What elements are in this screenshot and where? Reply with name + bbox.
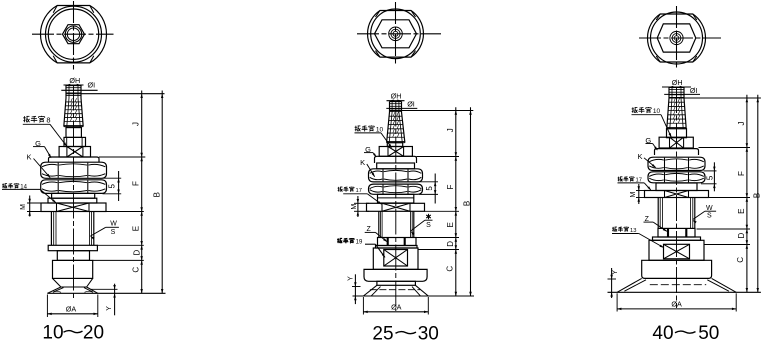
fig2 flange xyxy=(364,269,427,281)
fig3 coupling ring xyxy=(658,228,695,237)
fig3 thin washer xyxy=(653,237,701,240)
svg-text:J: J xyxy=(446,128,455,132)
fig2 label *S xyxy=(428,214,430,219)
svg-text:F: F xyxy=(737,171,746,176)
svg-text:5: 5 xyxy=(425,186,434,191)
svg-text:W: W xyxy=(110,220,117,227)
fig1 top view: thread circles xyxy=(65,26,81,42)
svg-text:C: C xyxy=(445,266,454,272)
fig3 top plate G xyxy=(655,149,699,155)
svg-text:ØI: ØI xyxy=(88,81,96,90)
fig1 dim line B xyxy=(161,91,163,294)
svg-text:C: C xyxy=(736,257,745,263)
svg-text:5: 5 xyxy=(705,175,714,180)
fig2 centerline xyxy=(395,101,397,312)
svg-text:B: B xyxy=(462,201,471,206)
svg-text:ØA: ØA xyxy=(671,300,682,309)
svg-text:M: M xyxy=(351,204,358,210)
svg-text:D: D xyxy=(132,249,141,255)
svg-text:ØA: ØA xyxy=(66,304,77,313)
fig3 dim ØH xyxy=(662,86,691,88)
fig3 taper thread xyxy=(667,98,669,129)
fig3 right extension lines xyxy=(699,147,751,149)
svg-text:ØH: ØH xyxy=(672,78,683,87)
svg-text:D: D xyxy=(737,232,746,238)
svg-text:19: 19 xyxy=(356,239,363,245)
fig3 label wrench-width-17 xyxy=(618,177,620,182)
fig1 dim Y xyxy=(91,288,118,290)
fig2 dim ØH xyxy=(387,100,405,102)
fig1 washer M with X xyxy=(41,203,106,212)
fig1 label wrench-width-8 xyxy=(23,116,25,122)
fig1 leader ØI xyxy=(61,89,97,91)
fig1 hex nut lower xyxy=(41,180,107,194)
svg-text:C: C xyxy=(132,267,141,273)
fig1 suction cup flare xyxy=(47,287,61,293)
svg-text:13: 13 xyxy=(630,228,636,234)
fig3 top view: thread circles xyxy=(670,31,683,44)
fig2 lower block with X xyxy=(373,248,418,269)
fig2 suction cup xyxy=(363,285,377,296)
fig3 label wrench-width-10 xyxy=(632,107,634,113)
fig1 cup bottom line xyxy=(47,292,165,294)
fig2 coupling ring xyxy=(378,238,417,246)
fig2 wrench square with X xyxy=(379,147,412,157)
fig1 label wrench-width-14 xyxy=(2,183,4,188)
fig1 dim M xyxy=(27,202,44,204)
fig2 dim M xyxy=(354,202,369,204)
fig3 top reference line xyxy=(669,97,761,99)
fig2 cup neck xyxy=(377,281,416,285)
fig1 top plate G xyxy=(49,157,100,162)
fig1 right extension lines xyxy=(99,156,145,158)
fig1 top view: corner chamfer lines xyxy=(53,6,57,13)
svg-text:30: 30 xyxy=(418,324,439,344)
svg-text:ØH: ØH xyxy=(391,92,402,101)
svg-text:10: 10 xyxy=(653,108,661,115)
fig3 dim ØA xyxy=(616,293,618,311)
svg-text:K: K xyxy=(26,153,31,162)
fig1 top reference line xyxy=(66,93,165,95)
fig2 washer M with X xyxy=(367,203,425,211)
fig2 dim ØA xyxy=(362,297,364,315)
fig1 dim ØH xyxy=(64,84,84,86)
fig3 top view: centerlines xyxy=(676,6,678,69)
fig1 taper thread xyxy=(64,98,66,127)
fig3 dim Y xyxy=(608,278,617,280)
svg-text:J: J xyxy=(132,122,141,126)
fig3 dim 5 (lower nut) xyxy=(704,170,717,172)
fig2 threaded stud xyxy=(389,102,391,113)
fig2 top view: corner chamfers xyxy=(375,11,380,18)
svg-text:ØH: ØH xyxy=(69,76,80,85)
fig2 thin washer xyxy=(376,246,418,249)
fig2 boss below nuts xyxy=(378,194,414,203)
svg-text:E: E xyxy=(737,209,746,214)
svg-text:S: S xyxy=(111,229,116,236)
svg-text:8: 8 xyxy=(46,116,50,125)
fig1 centerline xyxy=(73,85,75,301)
fig2 taper thread xyxy=(387,112,390,143)
fig2 top reference line xyxy=(390,110,474,112)
fig3 flange xyxy=(642,260,712,278)
fig3 wrench square with X xyxy=(659,137,693,148)
fig1 top view: center hex nut xyxy=(63,25,85,44)
fig3 boss below nuts xyxy=(656,183,697,191)
fig2 right extension lines xyxy=(417,156,460,158)
fig3 top view: chamfer circle xyxy=(651,12,703,64)
fig3 top view: corner chamfers xyxy=(656,14,660,20)
fig3 hex nut upper xyxy=(648,157,705,170)
svg-text:E: E xyxy=(132,226,141,231)
fig1 wrench square with X xyxy=(59,147,90,158)
fig2 top view: centerlines xyxy=(395,2,397,66)
fig2 top view: thread circles xyxy=(389,27,403,41)
fig1 washer 2 xyxy=(48,245,97,250)
fig1 dim 5 (lower nut) xyxy=(103,177,122,179)
fig1 dim line J F E D C xyxy=(141,91,143,294)
fig3 dim M xyxy=(636,190,647,192)
fig3 dim line B xyxy=(757,95,759,292)
svg-text:ØI: ØI xyxy=(407,100,415,109)
svg-text:B: B xyxy=(752,193,761,198)
fig2 dim 5 (lower nut) xyxy=(419,181,438,183)
fig3 threaded tube E xyxy=(657,198,659,229)
fig2 dim Y xyxy=(352,286,361,288)
svg-text:Y: Y xyxy=(348,276,355,281)
svg-text:ØA: ØA xyxy=(391,303,402,312)
fig2 label wrench-width-10 xyxy=(355,126,357,132)
svg-text:M: M xyxy=(630,192,637,198)
fig3 leader ØI xyxy=(664,93,700,95)
svg-text:S: S xyxy=(426,222,431,229)
svg-text:17: 17 xyxy=(355,188,361,194)
svg-text:D: D xyxy=(446,241,455,247)
fig1 hex nut upper xyxy=(41,162,107,178)
svg-text:Y: Y xyxy=(106,306,113,311)
svg-text:S: S xyxy=(707,213,712,220)
fig3 cup bottom line xyxy=(608,291,761,293)
fig3 suction cup xyxy=(617,278,642,292)
fig2 cup bottom line xyxy=(353,295,475,297)
fig3 hex nut lower xyxy=(648,172,705,183)
svg-text:K: K xyxy=(360,158,365,167)
fig2 threaded tube E xyxy=(378,211,380,237)
fig2 top view: chamfer circle xyxy=(371,9,421,59)
svg-text:E: E xyxy=(446,222,455,227)
fig2 dim line B xyxy=(470,107,472,296)
fig2 top view: nut outline xyxy=(368,11,424,58)
fig2 hex nut upper xyxy=(369,169,423,182)
fig1 top view: chamfer circles xyxy=(46,6,102,62)
svg-text:B: B xyxy=(153,192,162,197)
svg-text:25: 25 xyxy=(372,324,393,344)
fig3 top view: wrench hex xyxy=(657,24,696,52)
fig2 top view: wrench hex xyxy=(375,20,417,48)
fig3 threaded stud xyxy=(668,87,670,98)
fig1 threaded stud xyxy=(65,86,67,99)
fig1 top view: centerlines xyxy=(73,1,75,70)
fig2 neck rect xyxy=(387,143,402,147)
svg-text:K: K xyxy=(637,152,642,161)
fig3 dim line J F E D C xyxy=(746,95,748,292)
svg-text:ØI: ØI xyxy=(690,86,698,95)
fig1 neck rect xyxy=(66,128,81,138)
fig1 nipple block xyxy=(53,260,93,278)
svg-text:F: F xyxy=(446,184,455,189)
fig3 top view: nut outline xyxy=(647,14,705,62)
fig2 hex nut lower xyxy=(369,184,423,194)
fig1 top view: hex-nut outline xyxy=(40,6,106,63)
svg-text:J: J xyxy=(737,122,746,126)
svg-text:5: 5 xyxy=(107,183,116,188)
svg-text:F: F xyxy=(132,181,141,186)
fig2 leader ØI xyxy=(386,107,417,109)
fig1 threaded tube E xyxy=(50,212,52,246)
fig1 lower tube D xyxy=(57,251,89,261)
svg-text:40: 40 xyxy=(652,323,673,344)
fig3 washer M with X xyxy=(645,191,709,198)
fig2 dim line J F E D C xyxy=(455,107,457,296)
fig1 neck below nuts xyxy=(52,193,95,198)
svg-text:Y: Y xyxy=(612,270,619,275)
fig2 top plate G xyxy=(375,156,417,163)
fig1 cup cone xyxy=(53,278,61,287)
fig1 dim ØA xyxy=(46,295,48,318)
fig2 label wrench-width-19 xyxy=(337,238,339,243)
fig2 boss above nut xyxy=(377,163,415,169)
fig1 step rect xyxy=(64,137,86,146)
svg-text:50: 50 xyxy=(698,323,719,344)
svg-text:M: M xyxy=(20,204,27,210)
fig3 neck rect xyxy=(667,129,687,138)
fig2 label wrench-width-17 xyxy=(338,187,340,192)
fig3 lower block with X xyxy=(649,240,704,260)
fig3 centerline xyxy=(676,87,678,308)
fig3 label wrench-width-13 xyxy=(612,227,614,232)
svg-text:20: 20 xyxy=(83,323,104,344)
svg-text:10: 10 xyxy=(42,323,63,344)
